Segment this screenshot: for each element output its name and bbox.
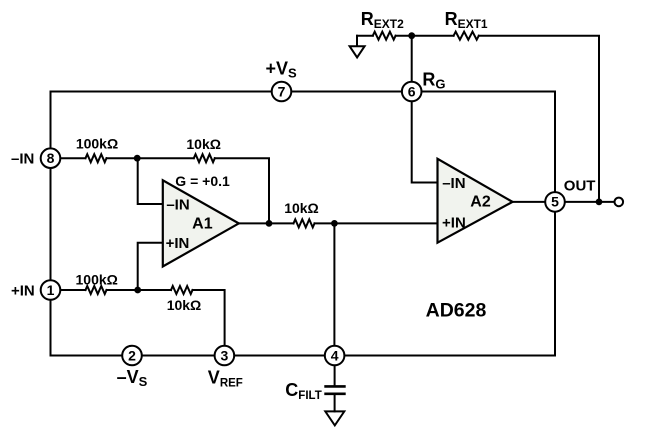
pin 7 — [272, 82, 292, 102]
wire -IN stub to A1 — [138, 158, 163, 204]
svg-text:–IN: –IN — [442, 175, 465, 192]
node pin4 junction (mid row) — [331, 220, 338, 227]
pin 3 — [215, 346, 235, 366]
wire ground stub to REXT2 — [357, 35, 373, 37]
node output junction — [596, 199, 603, 206]
svg-text:+IN: +IN — [166, 235, 190, 252]
svg-text:OUT: OUT — [564, 177, 596, 194]
svg-text:100kΩ: 100kΩ — [76, 135, 118, 151]
svg-text:+IN: +IN — [442, 215, 466, 232]
node REXT junction — [408, 32, 415, 39]
resistor 10k (A1 feedback) — [194, 154, 215, 162]
wire capacitor bottom lead — [334, 395, 336, 411]
wire capacitor top lead — [334, 365, 336, 385]
op-amp A2 — [438, 159, 513, 243]
svg-text:G = +0.1: G = +0.1 — [175, 173, 230, 189]
resistor 10k (to VREF pin 3) — [171, 286, 193, 294]
svg-text:10kΩ: 10kΩ — [284, 200, 319, 216]
pin 1 — [41, 280, 61, 300]
svg-text:+IN: +IN — [11, 282, 35, 299]
pin 8 — [41, 148, 61, 168]
svg-text:2: 2 — [128, 347, 136, 363]
svg-text:10kΩ: 10kΩ — [186, 136, 221, 152]
pin 4 — [325, 346, 345, 366]
wire 10k to VREF riser — [138, 290, 225, 346]
svg-text:100kΩ: 100kΩ — [76, 272, 118, 288]
pin 6 — [402, 82, 422, 102]
op-amp A1 — [163, 180, 239, 266]
resistor 10k (A1 out to A2 +IN) — [294, 219, 315, 227]
svg-text:4: 4 — [331, 347, 339, 363]
resistor REXT2 — [373, 32, 396, 40]
svg-text:1: 1 — [47, 282, 55, 298]
ground (below CFILT) — [325, 411, 344, 425]
wire pin6 down to A2 -IN — [412, 101, 438, 182]
wire pin8 row to junction — [60, 157, 137, 159]
svg-text:6: 6 — [408, 83, 416, 99]
wire A2 output row to terminal — [513, 201, 615, 203]
svg-text:7: 7 — [278, 83, 286, 99]
svg-text:–IN: –IN — [166, 196, 189, 213]
svg-text:–IN: –IN — [11, 151, 34, 168]
resistor 100k (pin 8 input) — [86, 154, 107, 162]
resistor REXT1 — [454, 32, 479, 40]
node +IN junction (pin1 row) — [134, 287, 141, 294]
wire junction to REXT1 — [412, 35, 454, 37]
wire pin1 row to junction — [60, 289, 138, 291]
node A1 input junction (pin8 row) — [134, 155, 141, 162]
svg-text:5: 5 — [551, 194, 559, 210]
ground (top, below REXT2) — [350, 36, 365, 58]
wire REXT1 to output drop — [479, 36, 599, 202]
wire 10k feedback row and drop to A1 output — [137, 158, 269, 223]
wire pin6 riser to REXT junction — [411, 36, 413, 82]
svg-text:A2: A2 — [470, 194, 491, 211]
pin 2 — [122, 346, 142, 366]
wire +IN stub to A1 — [138, 243, 163, 290]
pin 5 — [545, 192, 565, 212]
resistor 100k (pin 1 input) — [86, 286, 107, 294]
capacitor CFILT plates — [326, 386, 345, 393]
node A1 output junction — [266, 220, 273, 227]
svg-text:A1: A1 — [192, 215, 213, 232]
svg-text:10kΩ: 10kΩ — [167, 297, 202, 313]
AD628 device boundary box — [51, 92, 556, 356]
svg-text:8: 8 — [47, 150, 55, 166]
wire 10k mid row to A2 +IN — [269, 222, 438, 224]
wire pin4 riser — [333, 223, 335, 345]
svg-text:AD628: AD628 — [426, 300, 487, 322]
wire A1 output to junction — [239, 222, 269, 224]
output terminal — [615, 198, 624, 207]
wire REXT2 to junction — [396, 35, 412, 37]
svg-text:3: 3 — [221, 347, 229, 363]
